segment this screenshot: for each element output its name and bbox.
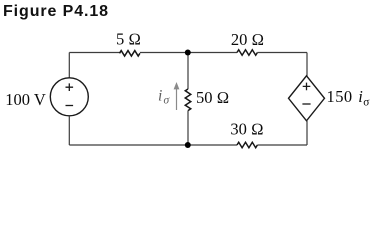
svg-text:50 Ω: 50 Ω: [196, 88, 229, 107]
wire middle vertical upper: [187, 53, 189, 90]
wire middle vertical lower: [187, 111, 189, 145]
svg-text:Figure P4.18: Figure P4.18: [3, 3, 109, 20]
minus sign of dependent source: [302, 103, 310, 105]
svg-text:iσ: iσ: [158, 87, 171, 106]
wire left vertical below source: [68, 116, 70, 145]
wire bottom-left segment: [69, 144, 237, 146]
svg-text:20 Ω: 20 Ω: [231, 30, 264, 49]
current arrow i_sigma: [174, 82, 180, 110]
wire left vertical above source: [68, 53, 70, 79]
resistor R 5ohm zigzag: [120, 51, 140, 57]
resistor R 30ohm zigzag: [237, 142, 257, 148]
resistor R 50ohm vertical zigzag: [185, 89, 191, 111]
node dot bottom: [185, 142, 191, 148]
dependent source diamond: [289, 76, 325, 121]
source V 100V circle: [50, 78, 88, 116]
wire top-left segment: [69, 52, 119, 54]
wire top-middle segment: [140, 52, 237, 54]
wire right vertical above diamond: [306, 53, 308, 77]
resistor R 20ohm zigzag: [237, 50, 257, 56]
node dot top: [185, 50, 191, 56]
plus sign of source: [66, 83, 74, 91]
wire right vertical below diamond: [306, 121, 308, 145]
svg-text:30 Ω: 30 Ω: [230, 120, 263, 139]
plus sign of dependent source: [303, 83, 311, 91]
svg-text:100 V: 100 V: [5, 90, 46, 109]
svg-text:150 iσ: 150 iσ: [327, 87, 371, 108]
svg-text:5 Ω: 5 Ω: [116, 30, 141, 49]
wire top-right segment: [257, 52, 307, 54]
wire bottom-right segment: [257, 144, 307, 146]
minus sign of source: [66, 105, 74, 107]
